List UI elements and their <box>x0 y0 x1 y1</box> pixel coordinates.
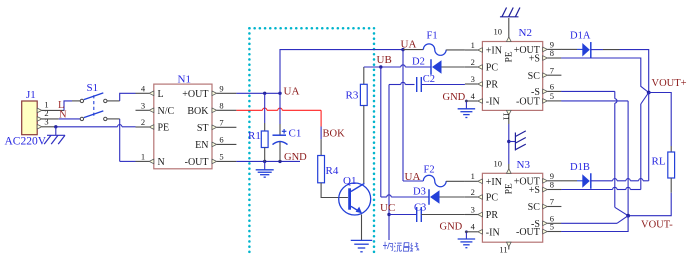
svg-text:4: 4 <box>471 222 476 232</box>
wire (D2 to N2 pin2) <box>442 66 465 68</box>
svg-text:AC220V: AC220V <box>5 136 47 148</box>
junction (PE/earth) <box>54 125 57 128</box>
svg-text:R3: R3 <box>346 90 359 102</box>
N3 pin 1 (+IN) <box>465 171 502 188</box>
svg-text:-IN: -IN <box>486 97 500 108</box>
wire -OUT (N1 pin5 gnd rail) <box>236 160 300 162</box>
junction (C1 / gnd rail) <box>278 160 281 163</box>
J1 pin 2 <box>37 108 48 121</box>
wire (RL to VOUT-) <box>628 178 671 216</box>
junction UC (bus / C3) <box>387 213 390 216</box>
svg-text:PC: PC <box>486 63 499 74</box>
wire (F1 to N2 pin1) <box>446 49 465 51</box>
wire (N2 pin11 to N3 pin10) <box>508 124 510 164</box>
resistor RL <box>652 152 675 178</box>
svg-text:VOUT+: VOUT+ <box>652 78 687 89</box>
svg-text:10: 10 <box>494 27 503 37</box>
svg-text:UA: UA <box>401 38 417 50</box>
wire (N3 pin4 to ground) <box>465 232 467 239</box>
wire (R4 to Q1 base) <box>321 183 348 198</box>
svg-text:1: 1 <box>471 171 475 181</box>
ground (N3 -IN) <box>458 238 476 240</box>
J1 pin 1 <box>37 100 48 113</box>
N1 pin 5 (-OUT) <box>185 151 237 168</box>
wire (F2 to N3 pin1) <box>446 180 465 182</box>
svg-text:+S: +S <box>529 54 540 65</box>
svg-text:+S: +S <box>529 185 540 196</box>
svg-text:F2: F2 <box>424 164 435 175</box>
svg-text:3: 3 <box>471 74 475 84</box>
chassis earth (above N2) <box>500 16 519 18</box>
ground (Q1 emitter) <box>351 239 373 241</box>
wire (D3 to N3 pin2) <box>440 196 465 198</box>
wire (S1 bottom to N1 N) <box>107 119 136 161</box>
svg-text:1: 1 <box>141 151 145 161</box>
N3 pin 7 (SC) <box>528 197 562 213</box>
wire UB drop (to D3) <box>380 67 382 197</box>
wire (S1 top to N1 L) <box>107 93 136 101</box>
N3 pin 5 (-OUT) <box>516 222 561 238</box>
svg-text:C3: C3 <box>414 202 426 213</box>
svg-text:UC: UC <box>380 202 395 214</box>
capacitor C3 <box>414 202 426 222</box>
svg-text:5: 5 <box>219 151 223 161</box>
ground GND (below R1/C1) <box>256 161 274 177</box>
svg-text:R1: R1 <box>248 130 261 142</box>
svg-text:+IN: +IN <box>486 46 502 57</box>
wire BOK (red, N1 pin8 to R4) <box>236 108 321 155</box>
junction (C1 top / UA riser) <box>278 92 281 95</box>
svg-text:ST: ST <box>197 123 209 134</box>
svg-text:UA: UA <box>284 85 300 97</box>
svg-text:SC: SC <box>528 202 541 213</box>
earth ground (J1) <box>47 134 65 136</box>
N3 pin 9 (+OUT) <box>514 171 562 187</box>
net label 均流母线 (current-share bus) <box>383 242 419 252</box>
dotted module boundary <box>249 28 374 256</box>
wire -OUT (N2 pin5 down) <box>561 101 628 216</box>
diode D1A <box>561 30 591 57</box>
connector J1 <box>22 89 38 135</box>
svg-text:PC: PC <box>486 193 499 204</box>
wire UA drop (to F2) <box>403 50 423 181</box>
svg-text:EN: EN <box>195 140 208 151</box>
svg-text:1: 1 <box>471 40 475 50</box>
resistor R4 <box>318 156 339 183</box>
N2 pin 4 (-IN) <box>465 91 500 108</box>
N2 pin 2 (PC) <box>465 57 498 74</box>
capacitor C1 (polarized) <box>273 93 302 161</box>
junction (N3 pin4) <box>465 230 468 233</box>
N3 pin 11 <box>499 242 511 255</box>
N2 pin 6 (-S) <box>531 82 561 98</box>
svg-text:-OUT: -OUT <box>185 157 209 168</box>
wire (Q1 emitter to ground) <box>361 215 363 241</box>
psu module N1 <box>154 74 212 169</box>
svg-text:F1: F1 <box>427 31 438 42</box>
wire (PE to earth) <box>55 127 57 136</box>
N1 pin 3 (N/C) <box>136 100 175 117</box>
wire (D1A to VOUT+ riser) <box>591 50 649 93</box>
svg-text:2: 2 <box>471 57 475 67</box>
psu module N3 <box>482 159 542 242</box>
svg-text:8: 8 <box>219 100 223 110</box>
capacitor C2 <box>417 74 435 92</box>
svg-text:UB: UB <box>377 54 392 66</box>
fuse F1 <box>423 31 446 56</box>
svg-text:3: 3 <box>44 116 48 126</box>
svg-text:5: 5 <box>550 222 554 232</box>
N2 pin 10 <box>494 18 512 42</box>
svg-text:J1: J1 <box>26 89 36 101</box>
svg-text:6: 6 <box>219 134 223 144</box>
N1 pin 4 (L) <box>136 83 164 100</box>
N1 pin 2 (PE) <box>136 117 170 134</box>
svg-text:+IN: +IN <box>486 177 502 188</box>
wire UA riser <box>280 50 403 94</box>
N3 pin 10 <box>494 158 512 173</box>
wire (R3 to Q1 collector) <box>363 106 365 184</box>
svg-text:7: 7 <box>550 197 554 207</box>
N3 pin 8 (+S) <box>529 180 562 196</box>
resistor R1 <box>248 93 268 161</box>
N2 pin 1 (+IN) <box>465 40 502 57</box>
wire -S (N3 pin6 to VOUT-) <box>561 216 628 224</box>
fuse F2 <box>423 164 446 186</box>
svg-text:-OUT: -OUT <box>516 97 540 108</box>
N3 pin 4 (-IN) <box>465 222 500 239</box>
svg-text:N: N <box>158 157 165 168</box>
diode D3 <box>413 186 440 204</box>
N3 pin 2 (PC) <box>465 187 498 204</box>
svg-text:9: 9 <box>219 83 223 93</box>
svg-text:N2: N2 <box>519 27 532 39</box>
wire (UA to F1) <box>403 49 423 51</box>
svg-text:N1: N1 <box>178 74 191 86</box>
svg-text:N: N <box>59 109 67 120</box>
J1 pin 3 <box>37 116 48 129</box>
ground (N2 -IN) <box>458 108 476 110</box>
svg-text:8: 8 <box>550 180 554 190</box>
switch S1 <box>80 82 107 121</box>
svg-text:S1: S1 <box>87 82 99 94</box>
junction (interlink earth) <box>507 140 510 143</box>
psu module N2 <box>482 27 542 110</box>
svg-text:PR: PR <box>486 210 499 221</box>
N2 pin 7 (SC) <box>528 65 562 81</box>
svg-text:N3: N3 <box>517 159 531 171</box>
svg-text:D3: D3 <box>413 186 426 197</box>
svg-text:11: 11 <box>502 112 512 120</box>
wire -OUT (N3 pin5 to VOUT-) <box>561 216 628 232</box>
svg-text:11: 11 <box>499 245 507 255</box>
N1 pin 7 (ST) <box>197 117 237 134</box>
junction VOUT- <box>626 214 630 218</box>
wire C2 to share-bus <box>389 82 415 88</box>
svg-text:2: 2 <box>471 187 475 197</box>
resistor R3 <box>346 67 368 106</box>
wire +OUT (N1 pin9 to UA node) <box>236 92 280 94</box>
wire N (J1 pin2 to S1) <box>42 118 80 120</box>
svg-text:7: 7 <box>219 117 223 127</box>
svg-text:BOK: BOK <box>187 106 209 117</box>
wire (C2 to N2 pin3) <box>421 84 465 86</box>
svg-text:D2: D2 <box>412 57 425 68</box>
svg-text:N/C: N/C <box>158 106 175 117</box>
svg-text:D1B: D1B <box>570 162 590 173</box>
wire UB (D2 cathode to R3) <box>364 65 431 67</box>
junction VOUT+ <box>647 91 651 95</box>
wire -S (N2 pin6 down) <box>561 91 628 215</box>
junction (R1 top) <box>263 92 266 95</box>
svg-text:RL: RL <box>652 155 666 167</box>
N2 pin 8 (+S) <box>529 48 562 64</box>
svg-text:3: 3 <box>141 100 145 110</box>
wire (VOUT+ to RL) <box>649 93 672 153</box>
N3 pin 3 (PR) <box>465 204 498 221</box>
diode D1B <box>561 162 591 189</box>
junction (pin4) <box>465 100 468 103</box>
svg-text:VOUT-: VOUT- <box>641 219 673 230</box>
svg-text:C1: C1 <box>289 127 302 139</box>
transistor Q1 <box>339 175 371 215</box>
svg-text:PR: PR <box>486 80 499 91</box>
N1 pin 1 (N) <box>136 151 165 168</box>
svg-text:+OUT: +OUT <box>182 89 208 100</box>
wire +S (N3 pin8) <box>561 189 612 191</box>
svg-text:BOK: BOK <box>323 129 346 140</box>
svg-text:2: 2 <box>141 117 145 127</box>
wire (UC to C3) <box>389 214 417 216</box>
svg-text:R4: R4 <box>326 165 339 177</box>
diode D2 <box>412 57 442 75</box>
chassis earth (between N2/N3, sideways) <box>514 133 516 151</box>
svg-text:10: 10 <box>494 158 503 168</box>
N2 pin 11 <box>502 110 512 124</box>
N2 pin 3 (PR) <box>465 74 498 91</box>
N2 pin 5 (-OUT) <box>516 91 561 107</box>
svg-text:D1A: D1A <box>570 30 591 41</box>
N3 pin 6 (-S) <box>531 214 561 230</box>
svg-text:PE: PE <box>158 123 170 134</box>
svg-text:C2: C2 <box>423 74 435 85</box>
svg-text:3: 3 <box>471 204 475 214</box>
N1 pin 6 (EN) <box>195 134 236 151</box>
svg-text:GND: GND <box>443 92 466 103</box>
svg-text:8: 8 <box>550 48 554 58</box>
svg-text:L: L <box>158 89 164 100</box>
svg-text:Q1: Q1 <box>343 175 356 187</box>
svg-text:5: 5 <box>550 91 554 101</box>
wire (C3 to N3 pin3) <box>421 214 465 216</box>
N1 pin 9 (+OUT) <box>182 83 236 100</box>
N2 pin 9 (+OUT) <box>514 40 562 56</box>
N1 pin 8 (BOK) <box>187 100 236 117</box>
svg-text:-OUT: -OUT <box>516 227 540 238</box>
junction UA (top) <box>401 48 404 51</box>
svg-text:6: 6 <box>550 82 554 92</box>
svg-text:-IN: -IN <box>486 227 500 238</box>
svg-text:4: 4 <box>471 91 476 101</box>
wire (D1B to VOUT+ column) <box>591 93 649 181</box>
wire (N2 pin4 to ground) <box>465 101 467 109</box>
svg-text:UA: UA <box>405 171 421 183</box>
svg-text:7: 7 <box>550 65 554 75</box>
wire L (J1 pin1 to S1) <box>42 101 80 111</box>
junction (R1 / gnd) <box>263 160 266 163</box>
junction UB <box>379 65 382 68</box>
wire (to side earth) <box>509 141 516 143</box>
wire PE (J1 pin3 to N1 PE) <box>42 125 136 127</box>
wire share-bus vertical <box>388 88 390 240</box>
svg-text:GND: GND <box>440 221 463 232</box>
svg-text:GND: GND <box>284 152 307 163</box>
wire (UB to D3) <box>381 195 429 197</box>
wire (VOUT+ to N3 +S tie) <box>641 93 649 190</box>
wire +S (N2 pin8 to VOUT+) <box>561 58 649 93</box>
svg-text:SC: SC <box>528 71 541 82</box>
